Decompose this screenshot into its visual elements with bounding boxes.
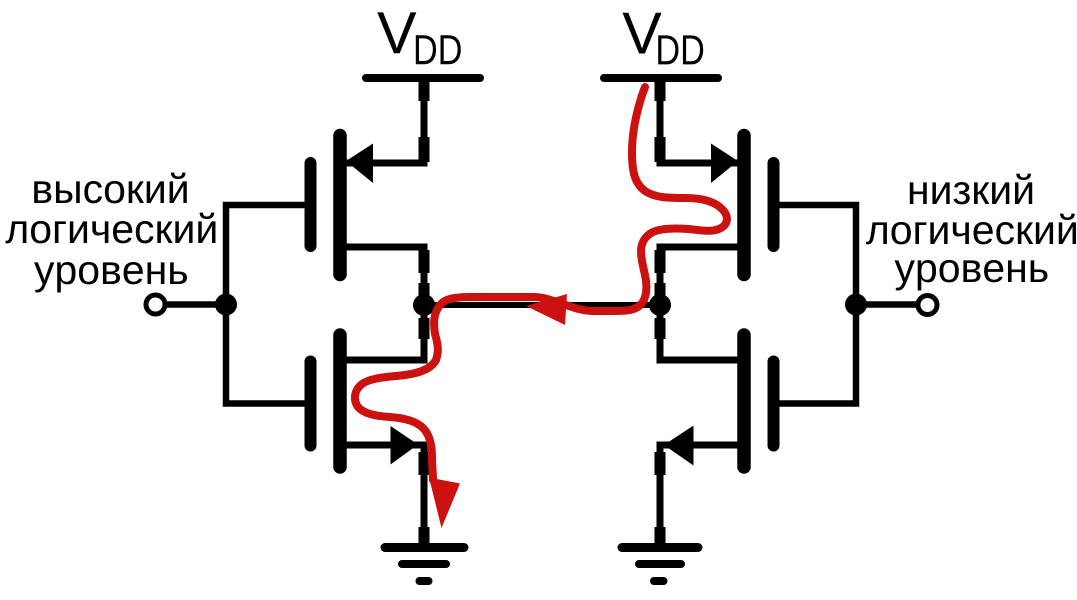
wire: right gate bus (up to M3 gate, down to M4 gate)	[774, 205, 857, 404]
transistor M4 NMOS (right bottom)	[660, 305, 774, 547]
power rail VDD (right)	[604, 74, 718, 82]
wire: input terminal to gate node	[164, 301, 226, 308]
ground symbol (left)	[385, 548, 464, 582]
transistor M2 NMOS (left bottom)	[311, 305, 425, 547]
node: left gate junction dot	[215, 294, 237, 316]
label VDD (right)	[623, 13, 704, 65]
ground symbol (right)	[622, 548, 698, 582]
wire: left gate bus (up to M1 gate, down to M2 gate)	[226, 205, 311, 404]
label "низкий логический уровень" (right input)	[866, 174, 1076, 291]
transistor M1 PMOS (left top)	[311, 78, 425, 305]
red arrowhead at left ground (pointing down)	[429, 478, 460, 529]
label "высокий логический уровень" (left input)	[6, 173, 216, 293]
node: left inverter output dot	[413, 294, 435, 316]
wire: middle net joining both inverter outputs	[424, 302, 660, 308]
red arrowhead on middle net (pointing left)	[526, 294, 567, 325]
node: right gate junction dot	[845, 294, 867, 316]
wire cap stubs (left column)	[419, 82, 430, 544]
power rail VDD (left)	[366, 74, 480, 82]
current path (red): from right VDD through M3, across middle net, through M2 to ground	[355, 87, 727, 528]
wire cap stubs (right column)	[655, 82, 666, 544]
node: right inverter output dot	[649, 294, 671, 316]
input terminal (open circle, right)	[918, 296, 937, 315]
input terminal (open circle, left)	[146, 295, 165, 314]
transistor M3 PMOS (right top)	[660, 78, 774, 305]
label VDD (left)	[377, 12, 460, 64]
wire: right terminal to gate node	[856, 301, 919, 308]
